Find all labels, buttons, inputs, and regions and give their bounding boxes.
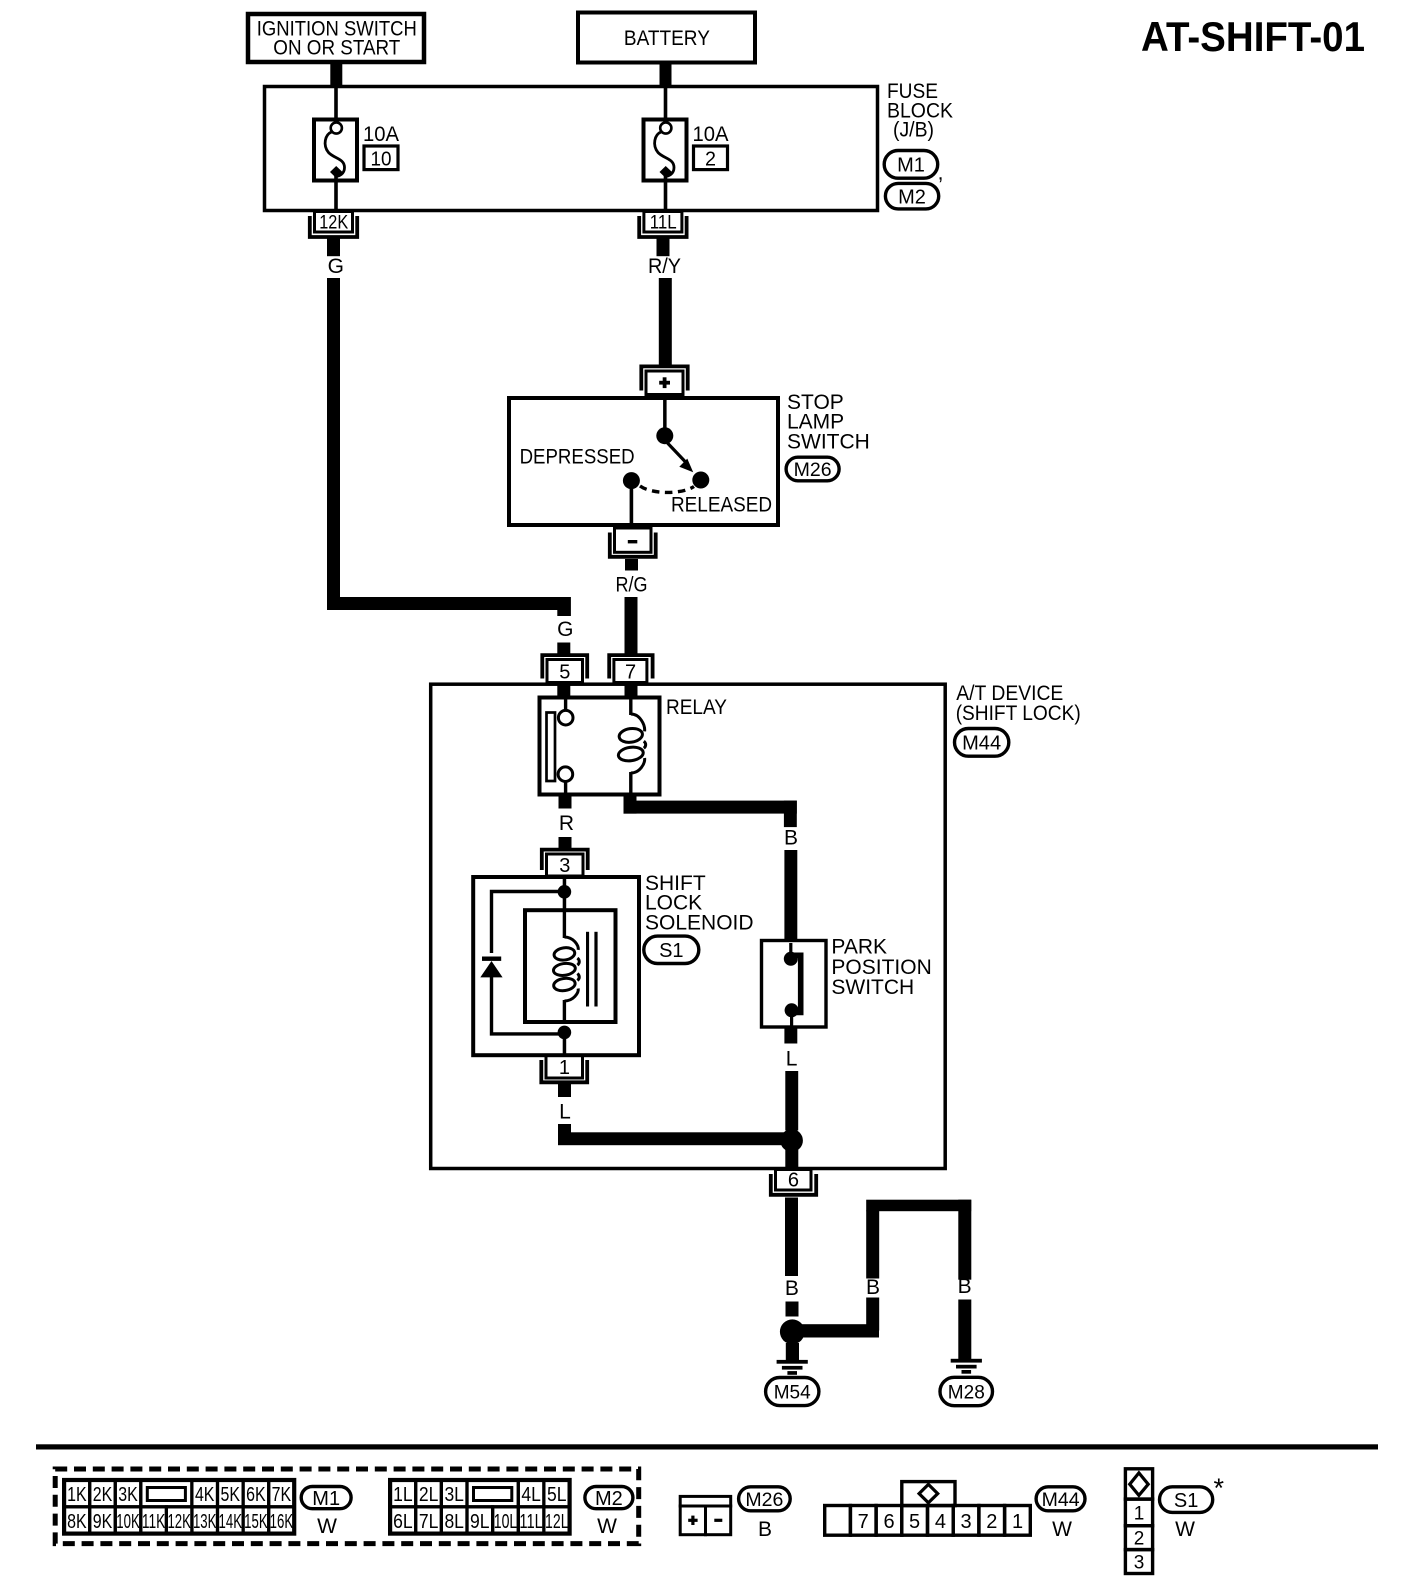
- svg-text:10A: 10A: [693, 123, 729, 146]
- svg-text:ON OR START: ON OR START: [273, 37, 400, 60]
- svg-text:10A: 10A: [363, 123, 399, 146]
- legend dashed box (fuse block connectors): [55, 1469, 639, 1544]
- svg-text:3: 3: [1134, 1553, 1145, 1574]
- svg-text:R/G: R/G: [616, 574, 648, 597]
- svg-text:SWITCH: SWITCH: [787, 430, 870, 453]
- connector 1: [541, 1056, 587, 1098]
- svg-text:6K: 6K: [246, 1484, 266, 1506]
- svg-text:SWITCH: SWITCH: [831, 976, 914, 999]
- wire: connector 5 to relay: [557, 682, 570, 698]
- connector S1 oval: [644, 936, 699, 963]
- svg-text:10L: 10L: [494, 1511, 518, 1533]
- svg-text:M26: M26: [745, 1489, 783, 1511]
- diode (across solenoid coil): [480, 892, 564, 1034]
- svg-text:7K: 7K: [272, 1484, 292, 1506]
- connector + (stop lamp switch): [641, 366, 687, 394]
- wire: battery to fuse block: [660, 62, 672, 86]
- relay contact (armature): [547, 700, 574, 795]
- svg-text:R/Y: R/Y: [648, 255, 681, 278]
- svg-text:G: G: [328, 255, 344, 278]
- wire B: branch to M28 (up and over): [792, 1200, 971, 1338]
- svg-text:4: 4: [935, 1511, 946, 1533]
- svg-text:10K: 10K: [116, 1511, 140, 1533]
- connector - (minus, stop lamp switch): [610, 528, 656, 571]
- park position switch box: [762, 941, 827, 1028]
- connector 12K: [310, 211, 357, 256]
- shift lock solenoid outer box: [473, 877, 639, 1055]
- solenoid core bars: [586, 932, 598, 1007]
- svg-text:M26: M26: [794, 459, 832, 481]
- stop lamp switch box: [509, 398, 778, 525]
- svg-text:AT-SHIFT-01: AT-SHIFT-01: [1141, 13, 1365, 60]
- svg-text:12L: 12L: [545, 1511, 569, 1533]
- wire: fuse block top feed at x=665.5: [664, 85, 668, 118]
- legend S1 oval + W + asterisk: [1160, 1473, 1225, 1541]
- svg-text:8L: 8L: [444, 1511, 464, 1533]
- legend M44 oval + W: [1036, 1487, 1085, 1541]
- node: solenoid bottom junction: [558, 1026, 572, 1056]
- svg-text:B: B: [758, 1518, 772, 1541]
- wire B: nub above ground junction: [786, 1302, 799, 1317]
- svg-text:L: L: [559, 1101, 571, 1124]
- svg-text:5: 5: [909, 1511, 920, 1533]
- separator line: [36, 1444, 1378, 1449]
- fuse 10 (10A): [314, 120, 357, 213]
- svg-text:12K: 12K: [167, 1511, 191, 1533]
- svg-text:S1: S1: [659, 940, 683, 962]
- svg-text:M54: M54: [774, 1382, 811, 1404]
- stop lamp switch contacts: [623, 395, 709, 528]
- svg-text:1K: 1K: [67, 1484, 87, 1506]
- label FUSE BLOCK (J/B): [887, 80, 953, 142]
- svg-text:13K: 13K: [193, 1511, 217, 1533]
- svg-text:G: G: [557, 618, 573, 641]
- fuse rating label 10A / 10: [363, 123, 399, 171]
- svg-text:BATTERY: BATTERY: [624, 27, 710, 50]
- legend connector grid M1 (1K-16K): [64, 1480, 294, 1534]
- connector 7: [609, 655, 652, 683]
- svg-text:B: B: [866, 1276, 880, 1299]
- svg-text:7L: 7L: [419, 1511, 439, 1533]
- svg-text:W: W: [317, 1515, 337, 1538]
- svg-text:DEPRESSED: DEPRESSED: [520, 445, 635, 468]
- svg-text:W: W: [1175, 1518, 1195, 1541]
- A/T device (shift lock) box: [431, 684, 946, 1168]
- svg-text:,: ,: [938, 162, 944, 185]
- ground symbol M28: [940, 1359, 993, 1406]
- wire: connector 7 to relay: [625, 682, 638, 698]
- svg-text:*: *: [1214, 1473, 1225, 1503]
- wire: fuse block top feed at x=336: [334, 85, 338, 118]
- wire L: park switch down: [784, 1027, 797, 1044]
- svg-text:2: 2: [986, 1511, 997, 1533]
- legend connector M26 (+/-): [680, 1496, 731, 1534]
- svg-text:RELAY: RELAY: [666, 696, 727, 719]
- svg-text:5K: 5K: [221, 1484, 241, 1506]
- connector 6: [771, 1169, 816, 1202]
- wire: junction to M54 ground: [786, 1343, 799, 1361]
- svg-text:M2: M2: [595, 1488, 623, 1510]
- svg-text:9K: 9K: [93, 1511, 113, 1533]
- relay box: [540, 698, 660, 795]
- svg-text:B: B: [958, 1275, 972, 1298]
- legend connector grid M2 (1L-12L): [390, 1480, 569, 1534]
- label PARK POSITION SWITCH: [831, 936, 931, 999]
- fuse block (J/B) box: [265, 87, 878, 211]
- solenoid coil unit inner box: [525, 910, 616, 1022]
- wire B: into park position switch: [784, 850, 797, 940]
- connector 11L: [639, 211, 686, 256]
- fuse rating label 10A / 2: [693, 123, 729, 171]
- svg-text:M2: M2: [898, 186, 926, 208]
- svg-text:B: B: [784, 827, 798, 850]
- svg-text:2L: 2L: [419, 1484, 439, 1506]
- ground symbol M54: [766, 1360, 819, 1406]
- svg-text:(J/B): (J/B): [893, 119, 934, 142]
- svg-text:6L: 6L: [393, 1511, 413, 1533]
- svg-text:4L: 4L: [521, 1484, 541, 1506]
- svg-text:2: 2: [1134, 1529, 1145, 1550]
- ignition switch box: [248, 14, 424, 62]
- svg-text:2: 2: [705, 149, 716, 171]
- svg-text:4K: 4K: [195, 1484, 215, 1506]
- node: ground junction (A/T box): [780, 1129, 803, 1152]
- svg-text:11K: 11K: [142, 1511, 166, 1533]
- wire G: 12K down, right, to connector 5: [327, 278, 571, 616]
- svg-text:W: W: [597, 1515, 617, 1538]
- svg-text:2K: 2K: [93, 1484, 113, 1506]
- svg-text:15K: 15K: [244, 1511, 268, 1533]
- svg-text:W: W: [1052, 1518, 1072, 1541]
- svg-text:5L: 5L: [547, 1484, 567, 1506]
- wire: G nub into connector 5: [557, 643, 570, 655]
- svg-text:3K: 3K: [118, 1484, 138, 1506]
- wire R/Y: 11L to stop lamp switch: [659, 278, 672, 365]
- svg-text:12K: 12K: [319, 211, 348, 233]
- connector M1 oval: [884, 151, 943, 185]
- node: ground junction (M54/M28 split): [780, 1319, 805, 1344]
- legend M1 oval + W: [301, 1487, 351, 1539]
- wire: junction into solenoid coil unit: [563, 896, 567, 912]
- svg-text:6: 6: [788, 1169, 799, 1191]
- svg-text:B: B: [785, 1277, 799, 1300]
- svg-text:8K: 8K: [67, 1511, 87, 1533]
- svg-text:L: L: [786, 1048, 798, 1071]
- solenoid coil: [553, 912, 580, 1020]
- svg-text:RELEASED: RELEASED: [671, 494, 772, 517]
- wire B: down to M28 ground: [958, 1300, 971, 1360]
- wire: ignition switch to fuse block: [330, 62, 342, 86]
- svg-text:M1: M1: [312, 1488, 340, 1510]
- connector M26 oval (stop lamp switch): [786, 457, 839, 481]
- svg-text:5: 5: [559, 661, 570, 683]
- battery box: [578, 13, 755, 63]
- svg-text:11L: 11L: [519, 1511, 543, 1533]
- wire L: connector 1 to ground junction: [558, 1124, 798, 1145]
- relay coil: [617, 699, 645, 794]
- svg-text:(SHIFT LOCK): (SHIFT LOCK): [956, 702, 1081, 725]
- svg-text:M44: M44: [1042, 1489, 1080, 1511]
- park position switch contacts: [784, 943, 801, 1027]
- svg-text:9L: 9L: [470, 1511, 490, 1533]
- legend connector S1 (vertical 1-2-3): [1125, 1469, 1152, 1574]
- svg-text:SOLENOID: SOLENOID: [645, 911, 754, 934]
- wire R/G: to connector 7: [625, 597, 638, 655]
- svg-text:M28: M28: [948, 1382, 985, 1404]
- label STOP LAMP SWITCH: [787, 391, 870, 453]
- svg-text:M1: M1: [897, 155, 925, 177]
- legend M26 oval + B: [739, 1487, 791, 1541]
- svg-text:1: 1: [1012, 1511, 1023, 1533]
- connector 3: [542, 850, 588, 877]
- connector 5: [542, 655, 587, 683]
- svg-text:R: R: [559, 812, 574, 835]
- svg-text:7: 7: [858, 1511, 869, 1533]
- wire R: relay to connector 3: [559, 794, 572, 809]
- svg-text:3L: 3L: [444, 1484, 464, 1506]
- svg-text:3: 3: [559, 855, 570, 877]
- wire: junction to connector 6: [785, 1149, 798, 1171]
- svg-text:S1: S1: [1174, 1490, 1198, 1512]
- svg-text:16K: 16K: [270, 1511, 294, 1533]
- wire B: connector 6 down: [785, 1200, 798, 1276]
- svg-text:1L: 1L: [393, 1484, 413, 1506]
- wire B: relay to park position switch: [624, 794, 797, 827]
- legend M2 oval + W: [585, 1487, 633, 1539]
- svg-text:M44: M44: [962, 733, 1001, 755]
- label SHIFT LOCK SOLENOID: [645, 872, 754, 934]
- label A/T DEVICE (SHIFT LOCK): [956, 682, 1081, 725]
- svg-text:3: 3: [961, 1511, 972, 1533]
- legend connector M44 (7..1 row): [825, 1482, 1031, 1536]
- svg-text:6: 6: [883, 1511, 894, 1533]
- wire: R nub into connector 3: [559, 837, 572, 849]
- connector M2 oval: [885, 183, 938, 209]
- svg-text:1: 1: [1134, 1503, 1145, 1524]
- node: solenoid top junction: [558, 876, 572, 899]
- fuse 2 (10A): [644, 120, 687, 213]
- svg-text:10: 10: [371, 149, 392, 171]
- svg-text:14K: 14K: [219, 1511, 243, 1533]
- wire L: to ground junction: [785, 1071, 798, 1131]
- connector M44 oval: [955, 729, 1009, 757]
- svg-text:11L: 11L: [650, 211, 677, 233]
- svg-text:7: 7: [625, 661, 636, 683]
- svg-text:1: 1: [559, 1057, 570, 1079]
